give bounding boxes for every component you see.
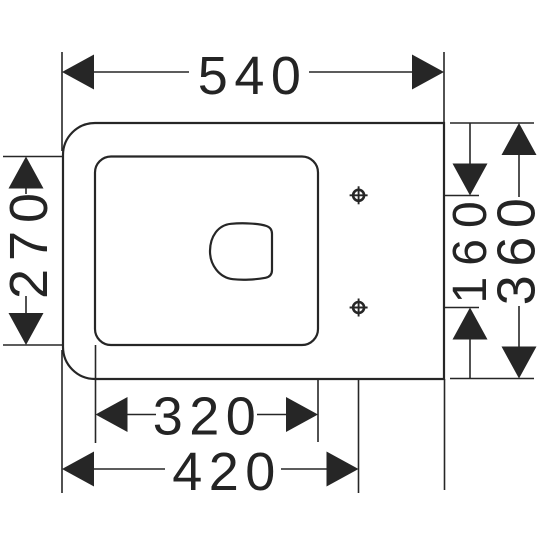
dim 360 extension line bottom	[450, 378, 534, 380]
dim 160 stem top	[469, 123, 471, 165]
dim 360 arrow top (points up)	[502, 123, 537, 155]
bowl rim inner outline	[95, 157, 318, 346]
drain hole	[210, 223, 272, 279]
body right extension line below	[444, 379, 446, 490]
svg-text:420: 420	[172, 442, 282, 502]
dim 320 arrow right	[286, 397, 318, 432]
dim 320 dimension line	[127, 414, 156, 416]
dim 360 dimension line	[518, 154, 520, 197]
svg-text:320: 320	[153, 387, 263, 447]
dim 360 extension line top	[450, 122, 534, 124]
dim 540 arrow left	[62, 55, 94, 90]
dim 270 arrow bottom	[9, 313, 44, 345]
svg-text:360: 360	[487, 190, 547, 306]
dim 320 arrow left	[96, 397, 128, 432]
dim 420 arrow left	[62, 452, 94, 487]
dim 540 extension line left	[61, 52, 63, 151]
mounting hole crosshair top	[350, 186, 368, 204]
dim 420 arrow right	[327, 452, 359, 487]
dim 160 arrow top (points down)	[453, 164, 488, 196]
dim 320 extension line right	[317, 378, 319, 442]
svg-text:270: 270	[0, 185, 59, 299]
dim 160 stem bottom	[469, 338, 471, 378]
dim 360 arrow bottom (points down)	[502, 347, 537, 379]
dim 540 dimension line	[93, 71, 189, 73]
dim 540 extension line right	[443, 52, 445, 123]
dim 420 extension line right	[358, 378, 360, 493]
dim 270 dimension line	[25, 188, 27, 194]
dim 160 reference line top	[444, 195, 479, 197]
dim 160 reference line bottom	[444, 307, 479, 309]
dim 540 arrow right	[412, 55, 444, 90]
dim 270 extension line bottom	[3, 344, 62, 346]
dim 420 extension line left	[61, 350, 63, 493]
dim 420 dimension line	[93, 468, 165, 470]
mounting hole crosshair bottom	[350, 299, 368, 317]
svg-text:540: 540	[198, 46, 308, 106]
toilet body outline (top view)	[63, 123, 444, 379]
dim 320 extension line left	[95, 345, 97, 443]
dim 270 extension line top	[3, 156, 62, 158]
dim 270 arrow top	[9, 157, 44, 189]
dim 160 arrow bottom (points up)	[453, 308, 488, 340]
